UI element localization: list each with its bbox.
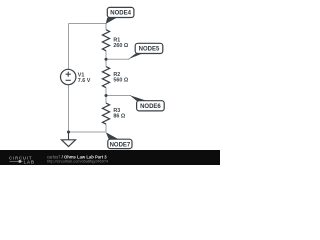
junction dot node5: [105, 58, 108, 61]
wire NODE5 stub: [106, 58, 130, 60]
svg-text:NODE6: NODE6: [140, 104, 161, 110]
svg-text:NODE5: NODE5: [139, 47, 160, 53]
svg-text:LAB: LAB: [24, 159, 35, 164]
node NODE4: [106, 7, 134, 24]
junction dot node6: [105, 94, 108, 97]
wire bottom horizontal: [69, 131, 107, 133]
wire NODE6 stub: [106, 95, 131, 97]
svg-text:NODE7: NODE7: [110, 142, 131, 148]
wire top horizontal: [69, 23, 107, 25]
ground: [62, 132, 76, 147]
resistor R3: [102, 103, 125, 124]
wire left vertical lower (source bottom to ground junction): [68, 85, 70, 132]
wire left vertical upper (source top to corner): [68, 24, 70, 70]
wire R3 bottom lead: [105, 124, 107, 132]
svg-text:7.6 V: 7.6 V: [78, 78, 91, 84]
svg-text:86 Ω: 86 Ω: [113, 114, 125, 120]
node NODE7: [106, 132, 132, 148]
watermark bar: [0, 150, 220, 165]
voltage source V1: [60, 69, 90, 84]
svg-text:NODE4: NODE4: [110, 11, 131, 17]
svg-text:260 Ω: 260 Ω: [113, 43, 128, 49]
wire R2-R3 segment: [105, 88, 107, 104]
resistor R2: [102, 67, 128, 88]
resistor R1: [102, 30, 128, 51]
svg-text:http://circuitlab.com/c6a8fqy2: http://circuitlab.com/c6a8fqy246974: [47, 158, 109, 163]
svg-text:560 Ω: 560 Ω: [113, 78, 128, 84]
node NODE5: [128, 43, 163, 59]
watermark logo CircuitLab: [9, 156, 35, 165]
wire R1-R2 segment: [105, 51, 107, 67]
junction dot ground: [67, 131, 70, 134]
wire R1 top lead: [105, 24, 107, 30]
node NODE6: [130, 95, 164, 111]
